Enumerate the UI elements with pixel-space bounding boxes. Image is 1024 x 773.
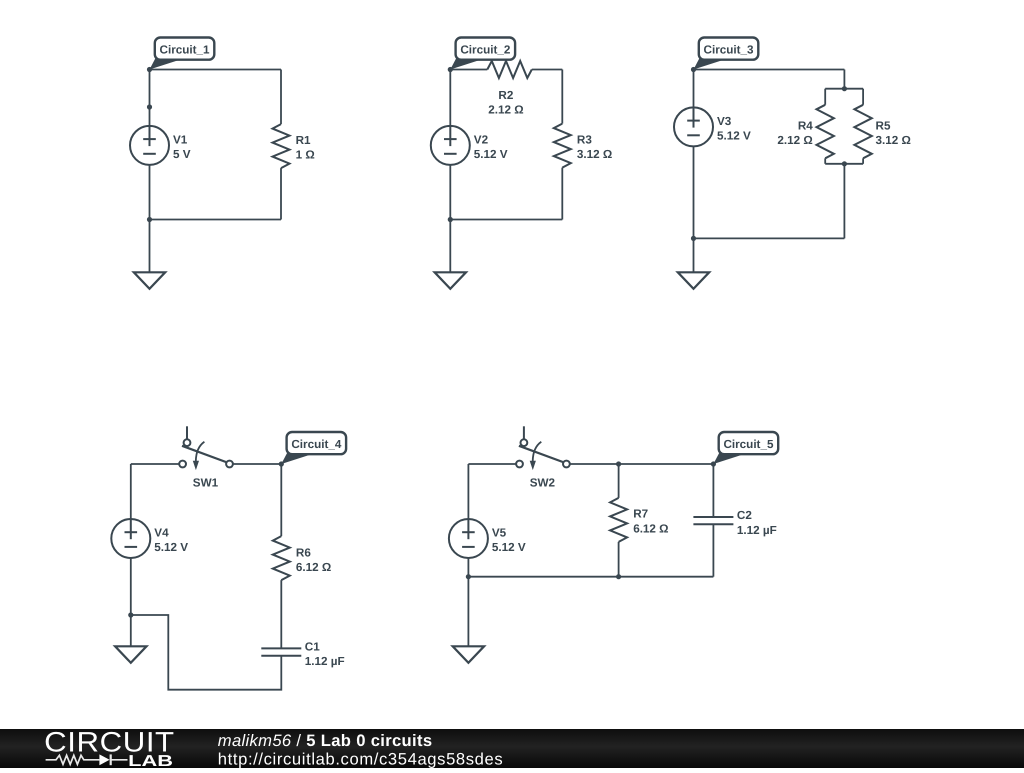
wire: circuit4 top right — [233, 463, 281, 465]
wire: circuit1 right lower — [280, 168, 282, 219]
net label Circuit_3 flag tail — [694, 58, 724, 69]
footer bar background — [0, 729, 1024, 768]
ground circuit1 — [134, 272, 165, 289]
svg-text:V5: V5 — [492, 527, 507, 540]
wire: circuit1 top — [150, 69, 282, 71]
wire: parallel bottom bar — [825, 163, 863, 165]
wire: circuit2 right upper — [561, 70, 563, 124]
svg-text:R5: R5 — [876, 119, 891, 132]
svg-text:Circuit_1: Circuit_1 — [160, 43, 211, 56]
wire: circuit5 bottom — [468, 576, 713, 578]
net label Circuit_2 box — [456, 38, 515, 60]
node: parallel top junction — [842, 86, 847, 91]
node: circuit1 V1 terminal — [147, 104, 152, 109]
wire: C2 lower — [712, 524, 714, 576]
net label Circuit_5 box — [719, 432, 779, 454]
svg-text:V2: V2 — [474, 133, 489, 146]
ground circuit3 — [678, 272, 709, 289]
wire: circuit3 left upper — [693, 70, 695, 108]
svg-text:http://circuitlab.com/c354ags5: http://circuitlab.com/c354ags58sdes — [218, 749, 504, 768]
node: circuit1 bottom-left — [147, 217, 152, 222]
wire: circuit2 top left — [450, 69, 487, 71]
wire: R4 bottom leg — [824, 158, 826, 164]
wire: circuit5 left lower to ground — [467, 558, 469, 646]
voltage source V2 — [431, 126, 470, 165]
net label Circuit_1 box — [155, 38, 215, 60]
voltage source V3 — [674, 107, 713, 146]
wire: R7 lower — [618, 542, 620, 577]
voltage source V5 — [449, 519, 488, 558]
wire: circuit3 to parallel top — [843, 70, 845, 89]
svg-text:V1: V1 — [173, 133, 188, 146]
resistor R6 — [273, 536, 290, 580]
wire: circuit1 bottom — [150, 219, 282, 221]
wire: circuit3 top — [694, 69, 845, 71]
capacitor C2 — [693, 517, 733, 524]
wire: circuit4 left lower to ground — [130, 558, 132, 646]
wire: R7 upper — [618, 464, 620, 498]
wire: circuit5 top right — [570, 463, 714, 465]
wire: R5 top leg — [862, 89, 864, 105]
svg-text:5.12 V: 5.12 V — [154, 541, 188, 554]
resistor R1 — [273, 124, 290, 168]
svg-text:R3: R3 — [577, 133, 592, 146]
wire: parallel top bar — [825, 88, 863, 90]
svg-text:LAB: LAB — [128, 753, 173, 768]
svg-text:R2: R2 — [498, 89, 513, 102]
resistor R7 — [610, 498, 627, 542]
svg-text:SW1: SW1 — [193, 476, 219, 489]
svg-text:V4: V4 — [154, 527, 169, 540]
svg-text:malikm56 / 5 Lab 0 circuits: malikm56 / 5 Lab 0 circuits — [218, 731, 433, 750]
svg-text:2.12 Ω: 2.12 Ω — [488, 103, 523, 116]
wire: circuit5 left upper — [467, 464, 469, 520]
svg-text:R7: R7 — [633, 508, 648, 521]
ground circuit2 — [435, 272, 466, 289]
node: circuit4 top-right — [279, 461, 284, 466]
wire: circuit3 bottom — [694, 237, 845, 239]
wire: circuit1 left upper — [149, 70, 151, 126]
svg-text:5.12 V: 5.12 V — [717, 130, 751, 143]
node: circuit4 return junction — [128, 612, 133, 617]
svg-text:R6: R6 — [296, 546, 311, 559]
net label Circuit_2 flag tail — [450, 58, 480, 69]
voltage source V4 — [111, 519, 150, 558]
node: circuit5 R7 top junction — [616, 461, 621, 466]
svg-text:5.12 V: 5.12 V — [492, 541, 526, 554]
wire: C1 return path — [131, 615, 281, 690]
wire: R4 top leg — [824, 89, 826, 105]
net label Circuit_4 flag tail — [281, 453, 311, 464]
svg-text:R4: R4 — [798, 119, 813, 132]
resistor R5 — [854, 105, 871, 159]
svg-text:Circuit_4: Circuit_4 — [291, 438, 342, 451]
node: circuit2 top-left — [448, 67, 453, 72]
svg-text:V3: V3 — [717, 115, 732, 128]
wire: circuit2 right lower — [561, 168, 563, 220]
svg-text:5 V: 5 V — [173, 148, 191, 161]
node: circuit3 top-left — [691, 67, 696, 72]
svg-text:6.12 Ω: 6.12 Ω — [296, 561, 331, 574]
net label Circuit_1 flag tail — [150, 58, 180, 69]
svg-text:C2: C2 — [737, 509, 752, 522]
wire: circuit2 bottom — [450, 219, 562, 221]
net label Circuit_4 box — [287, 432, 347, 454]
wire: R6 to C1 — [280, 580, 282, 648]
wire: circuit3 right lower — [843, 164, 845, 239]
node: circuit3 bottom-left — [691, 236, 696, 241]
net label Circuit_3 box — [699, 38, 759, 60]
svg-text:Circuit_5: Circuit_5 — [723, 438, 774, 451]
svg-text:C1: C1 — [305, 641, 320, 654]
node: circuit1 top-left — [147, 67, 152, 72]
resistor R2 — [487, 61, 532, 78]
svg-text:Circuit_3: Circuit_3 — [704, 43, 755, 56]
wire: circuit4 top left — [131, 463, 179, 465]
svg-text:R1: R1 — [296, 134, 311, 147]
resistor R4 — [817, 105, 834, 159]
capacitor C1 — [261, 648, 301, 655]
wire: circuit2 left lower to ground — [449, 165, 451, 272]
wire: R5 bottom leg — [862, 158, 864, 164]
node: parallel bottom junction — [842, 161, 847, 166]
logo resistor-diode line — [46, 754, 128, 765]
ground circuit5 — [453, 646, 484, 663]
svg-text:1.12 µF: 1.12 µF — [305, 655, 345, 668]
voltage source V1 — [130, 126, 169, 165]
svg-text:6.12 Ω: 6.12 Ω — [633, 522, 668, 535]
svg-text:SW2: SW2 — [530, 476, 556, 489]
svg-text:2.12 Ω: 2.12 Ω — [777, 134, 812, 147]
switch SW1 — [179, 426, 233, 470]
resistor R3 — [554, 124, 571, 168]
svg-text:3.12 Ω: 3.12 Ω — [577, 148, 612, 161]
wire: C2 upper — [712, 464, 714, 517]
node: circuit5 C2 top junction — [711, 461, 716, 466]
svg-text:1 Ω: 1 Ω — [296, 149, 315, 162]
wire: circuit3 left lower to ground — [693, 146, 695, 272]
svg-text:1.12 µF: 1.12 µF — [737, 524, 777, 537]
ground circuit4 — [115, 646, 146, 663]
wire: circuit2 left upper — [449, 70, 451, 126]
wire: circuit4 left upper — [130, 464, 132, 520]
wire: circuit1 left lower to ground — [149, 165, 151, 272]
svg-text:Circuit_2: Circuit_2 — [460, 43, 511, 56]
wire: circuit1 right upper — [280, 70, 282, 125]
switch SW2 — [516, 426, 570, 470]
wire: circuit4 right upper — [280, 464, 282, 536]
svg-text:5.12 V: 5.12 V — [474, 148, 508, 161]
net label Circuit_5 flag tail — [713, 453, 743, 464]
node: circuit5 bottom-left — [466, 574, 471, 579]
svg-text:3.12 Ω: 3.12 Ω — [876, 134, 911, 147]
wire: circuit5 top left — [468, 463, 516, 465]
logo diode triangle — [99, 754, 109, 765]
wire: circuit2 top right — [532, 69, 563, 71]
node: circuit5 R7 bottom junction — [616, 574, 621, 579]
node: circuit2 bottom-left — [448, 217, 453, 222]
